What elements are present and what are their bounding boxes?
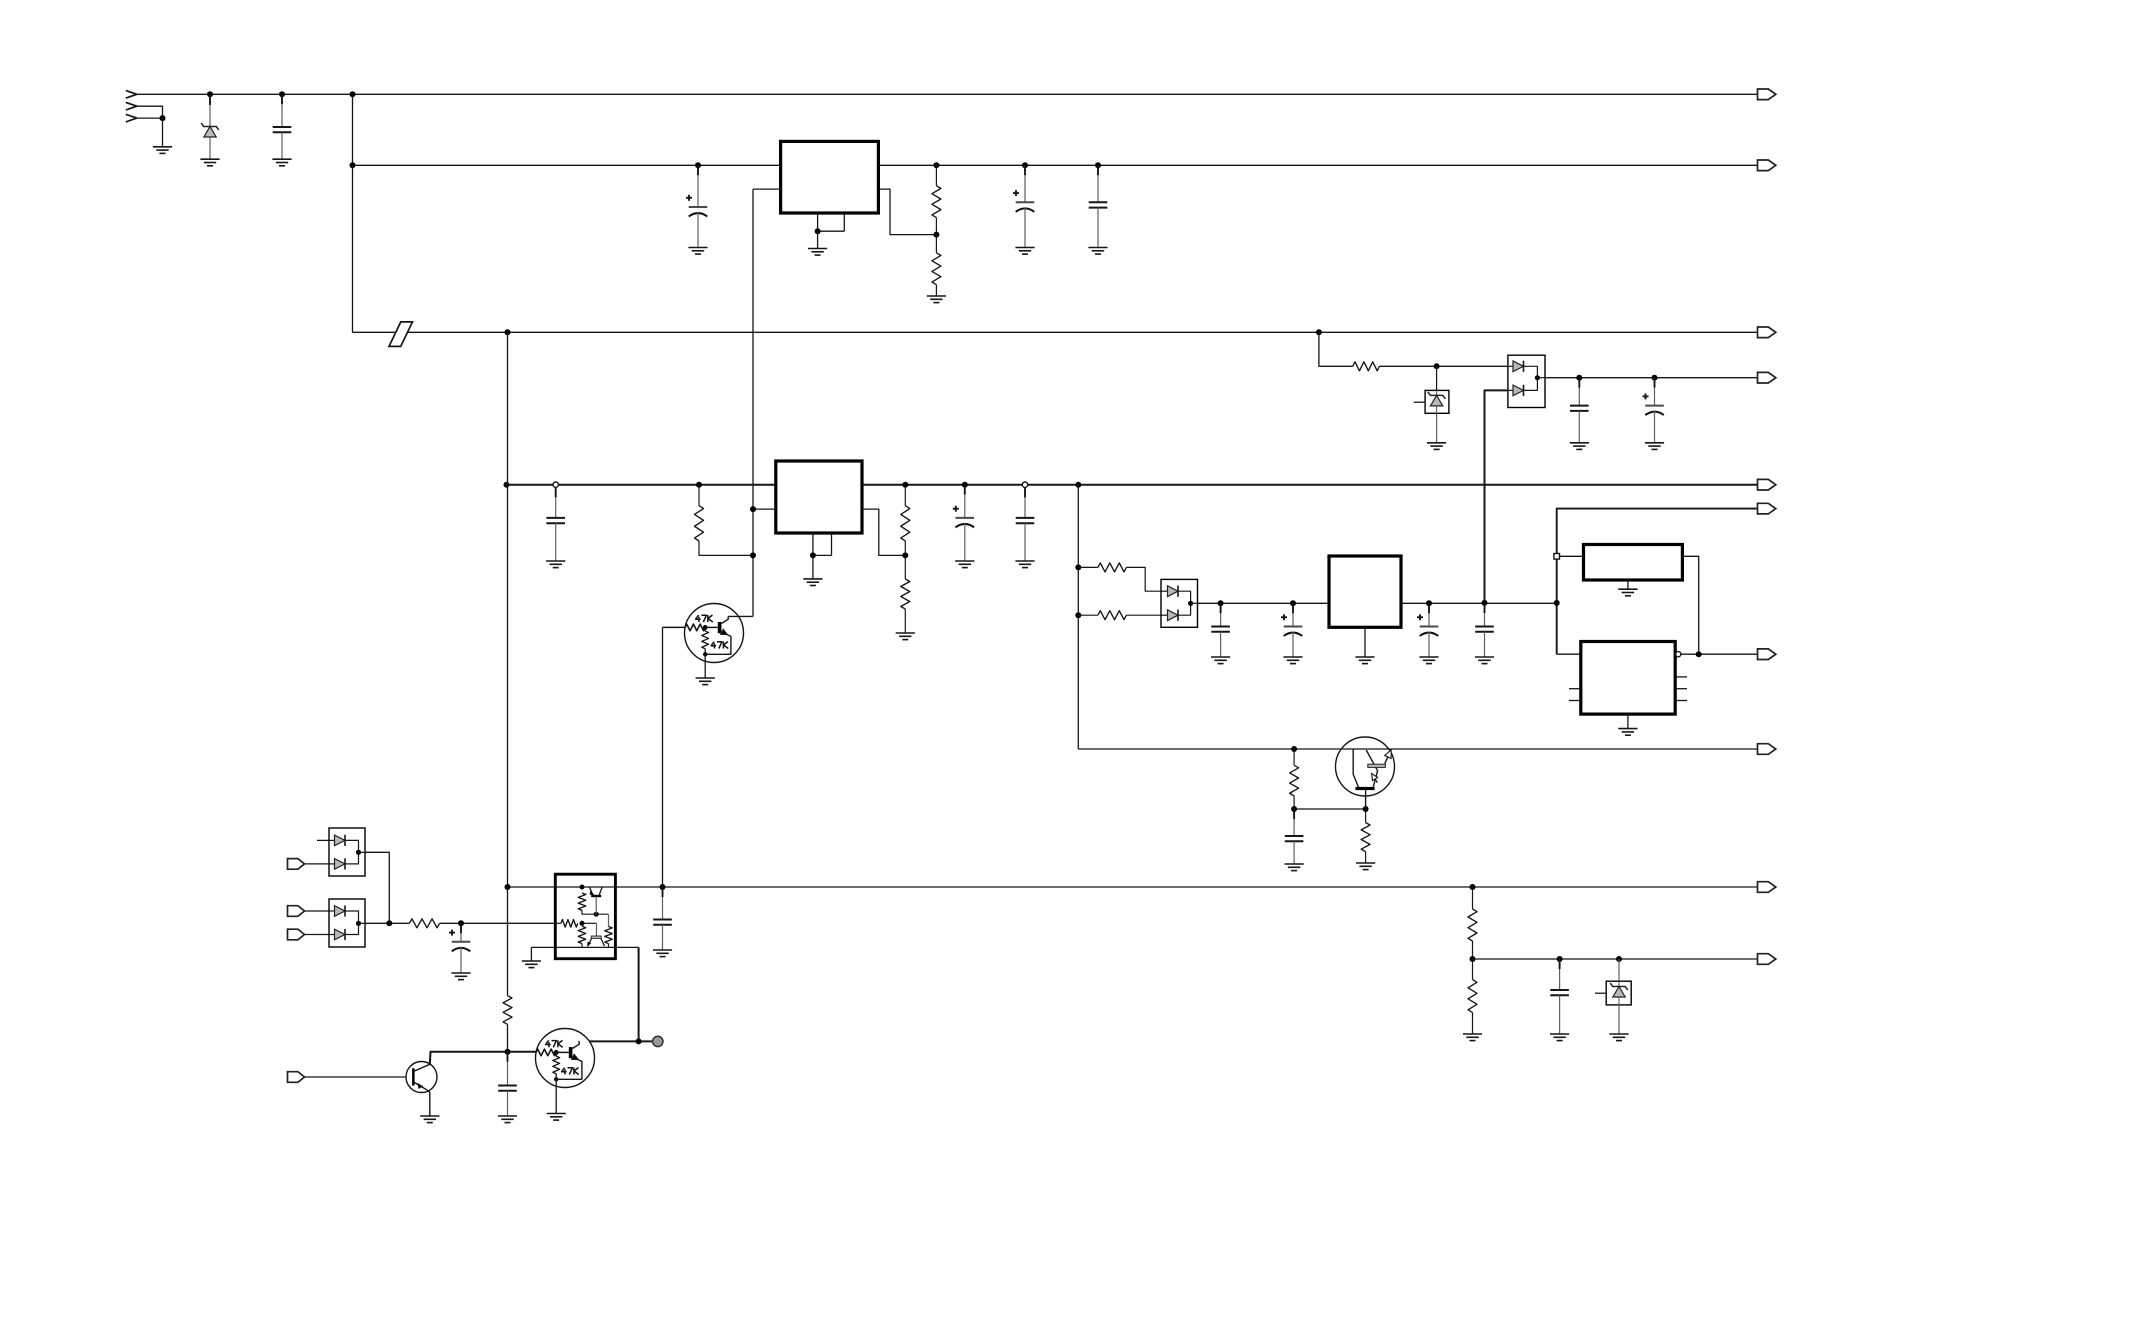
wire rail4 right <box>862 484 1758 486</box>
ground U3 <box>1355 657 1374 664</box>
capacitor C1 <box>272 94 291 166</box>
wire U2 sense pin <box>862 509 905 555</box>
diode Z3 boxed zener <box>1595 981 1631 1005</box>
junction U1 ground <box>815 228 821 234</box>
wire D3 out <box>365 852 389 923</box>
junction rail3 x507 <box>505 329 511 335</box>
resistor R2 <box>932 235 941 296</box>
capacitor C7 <box>546 487 565 567</box>
connector ring C9 node <box>1022 482 1027 487</box>
junction C5 <box>1576 375 1582 381</box>
junction C13 <box>1482 600 1488 606</box>
wire U3 gnd lead <box>1364 627 1366 657</box>
wire D2 to U3 <box>1198 602 1330 604</box>
wire Q2 collector <box>430 1052 536 1065</box>
capacitor C8 electrolytic <box>953 485 975 568</box>
junction rail2 R1 <box>933 162 939 168</box>
wire rail5 <box>1557 509 1758 655</box>
wire Z2 bottom lead <box>1436 413 1438 443</box>
output arrow y887 <box>1758 882 1776 893</box>
wire U1 sense pin <box>878 189 936 235</box>
wire Z3 bottom lead <box>1618 1005 1620 1034</box>
resistor R8 <box>1078 611 1161 620</box>
output arrow y749 <box>1758 744 1776 755</box>
junction C16 <box>458 920 464 926</box>
op-amp U2 regulator box <box>776 461 862 533</box>
junction rail2 C3 <box>1022 162 1028 168</box>
wire U2 ground pins <box>813 533 832 555</box>
output arrow U5 <box>1758 649 1776 660</box>
pin circle U5 output <box>1676 652 1681 657</box>
wire U1 ground pins <box>818 213 845 231</box>
wire Q2 base <box>305 1076 407 1078</box>
wire D3 pin2 <box>305 863 330 865</box>
wire vertical rail1-rail3 <box>352 94 354 332</box>
junction rail1 drop <box>350 91 356 97</box>
wire D3 pin1 stub <box>317 839 329 841</box>
junction rail4 C8 <box>962 482 968 488</box>
wire Z1 to ground <box>209 137 211 159</box>
capacitor C14 <box>1285 809 1304 871</box>
wire vertical x1078 <box>1077 485 1079 749</box>
wire vertical x507 <box>507 332 509 887</box>
output arrow rail5 <box>1758 503 1776 514</box>
wire Q1 emitter node <box>1294 808 1366 810</box>
resistor R12 <box>1468 959 1477 1034</box>
op-amp U4 block box <box>1584 545 1683 581</box>
junction C6 <box>1652 375 1658 381</box>
transistor Q4 digital 47K <box>685 604 754 679</box>
wire U5 right stubs <box>1675 677 1687 701</box>
junction rail1 C1 <box>279 91 285 97</box>
wire U5 left stubs <box>1569 689 1581 701</box>
junction rail4 x507 <box>504 482 510 488</box>
junction rail2 C4 <box>1095 162 1101 168</box>
capacitor C18 <box>498 1052 517 1123</box>
ground R2 <box>927 296 946 303</box>
input arrow D4 pin1 <box>288 906 305 917</box>
wire to ground <box>162 118 164 147</box>
wire Z3 top lead <box>1618 959 1620 981</box>
wire J1 pin3 to node <box>137 117 163 119</box>
capacitor C3 electrolytic <box>1013 165 1035 254</box>
wire rail y887 <box>508 886 1758 888</box>
wire U5 output <box>1681 653 1758 655</box>
resistor R13 <box>409 919 439 928</box>
junction C11 <box>1290 600 1296 606</box>
zener Z1 <box>201 123 219 137</box>
wire Q4 base feed <box>663 626 686 628</box>
junction U2 ground <box>810 552 816 558</box>
output arrow rail1 <box>1758 89 1776 100</box>
resistor R4 <box>695 485 754 556</box>
wire U2 gnd lead <box>812 555 814 579</box>
junction Q3 out <box>636 1038 642 1044</box>
wire rail y959 <box>1473 958 1758 960</box>
resistor R10 <box>1361 809 1370 863</box>
connector J1 pin 2 <box>126 102 137 110</box>
diode Z2 boxed zener <box>1414 390 1449 413</box>
wire U4 input <box>1560 555 1584 557</box>
junction rail4 x1078 <box>1075 482 1081 488</box>
capacitor C16 electrolytic <box>449 923 471 979</box>
output arrow rail4 <box>1758 479 1776 490</box>
wire U6 output drop <box>638 947 640 1041</box>
wire rail1 VIN <box>137 93 1758 95</box>
ground U5 <box>1618 729 1637 736</box>
ground Q2 <box>420 1116 439 1123</box>
junction y887 C17 <box>660 884 666 890</box>
ground R10 <box>1356 863 1375 870</box>
connector J1 pin 3 <box>126 114 137 122</box>
junction Z3 <box>1616 956 1622 962</box>
wire D1 output <box>1545 377 1758 379</box>
junction y887 x507 <box>505 884 511 890</box>
junction R9 <box>1291 746 1297 752</box>
junction Q1 R10 <box>1363 806 1369 812</box>
junction R1 R2 <box>933 232 939 238</box>
wire U4 gnd lead <box>1627 580 1629 589</box>
capacitor C15 <box>1550 959 1569 1041</box>
wire U5 input <box>1557 653 1581 655</box>
input arrow D3 pin2 <box>288 859 305 870</box>
junction Q2-C18 <box>505 1049 511 1055</box>
wire Q3 collector rail <box>578 1040 653 1042</box>
ground U6 <box>522 961 541 968</box>
junction y887 R11 <box>1470 884 1476 890</box>
input arrow Q2 base <box>288 1072 305 1083</box>
wire U1 pin2 left <box>753 188 781 190</box>
output arrow D1 rail <box>1758 372 1776 383</box>
wire U3 output <box>1401 602 1557 604</box>
junction U4-U5 outputs <box>1696 651 1702 657</box>
connector ring C7 node <box>553 482 558 487</box>
wire U4 output <box>1682 556 1698 654</box>
resistor R9 <box>1290 749 1299 809</box>
wire vertical to D1 lower anode <box>1485 390 1508 603</box>
resistor R7 <box>1078 563 1161 591</box>
ground Q3 <box>547 1114 566 1121</box>
wire rail4 left <box>507 484 776 486</box>
junction rail1 Z1 <box>207 91 213 97</box>
op-amp U5 block box <box>1581 642 1675 715</box>
diode D4 dual box <box>329 899 365 947</box>
capacitor C9 <box>1015 487 1034 567</box>
wire rail3 <box>353 331 1758 333</box>
junction D3-D4 <box>386 920 392 926</box>
capacitor C4 <box>1088 165 1107 254</box>
wire U5 gnd lead <box>1627 714 1629 729</box>
pin square U4 input <box>1554 554 1560 560</box>
wire vertical x663 <box>662 627 664 887</box>
transistor Q1 <box>1336 737 1395 809</box>
transistor Q2 <box>406 1062 437 1117</box>
diode D2 dual box <box>1161 579 1198 627</box>
ground R6 <box>896 633 915 640</box>
ground U4 <box>1618 589 1637 596</box>
resistor R5 <box>901 485 910 556</box>
input arrow D4 pin2 <box>288 929 305 940</box>
junction rail3 branch <box>1316 329 1322 335</box>
junction U2 pin2 <box>750 506 756 512</box>
ground Z1 <box>200 159 219 166</box>
op-amp U3 regulator box <box>1329 556 1401 627</box>
wire D4 pin2 <box>305 934 330 936</box>
wire J1 pin2 to node <box>137 106 163 118</box>
output arrow rail2 <box>1758 160 1776 171</box>
junction rail4 R4 <box>696 482 702 488</box>
wire rail y749 <box>1078 748 1757 750</box>
wire D4 pin1 <box>305 910 330 912</box>
transistor pack U6 <box>531 874 638 959</box>
junction J1 pins 2-3 <box>160 115 166 121</box>
ground Q4 <box>696 678 715 685</box>
op-amp U1 regulator box <box>781 141 879 213</box>
junction x1078 R7 <box>1075 564 1081 570</box>
wire U6 gnd lead <box>530 947 532 961</box>
capacitor C5 <box>1570 378 1589 450</box>
diode D1 dual box <box>1508 355 1545 407</box>
wire R3 to D1 <box>1379 365 1508 367</box>
ground U1 <box>808 249 827 256</box>
junction R9 C14 <box>1291 806 1297 812</box>
junction rail4 R5 <box>902 482 908 488</box>
junction C12 <box>1426 600 1432 606</box>
wire Z1 lead <box>209 94 211 126</box>
ground U2 <box>803 579 822 586</box>
junction rail2 drop <box>350 162 356 168</box>
wire U1 gnd lead <box>817 231 819 248</box>
capacitor C10 <box>1211 603 1230 663</box>
ground Z3 <box>1609 1034 1628 1041</box>
junction x1078 R8 <box>1075 612 1081 618</box>
fuse F1 symbol <box>389 322 413 347</box>
resistor R14 <box>503 887 512 1052</box>
wire vertical U1 pin2 feed <box>752 189 754 616</box>
capacitor C17 <box>653 887 672 957</box>
wire D4 out <box>365 922 409 924</box>
ground R12 <box>1463 1034 1482 1041</box>
junction R5 R6 <box>902 552 908 558</box>
junction Z2 node <box>1434 363 1440 369</box>
connector J1 pin 1 <box>126 91 137 99</box>
junction rail2 C2 <box>695 162 701 168</box>
output arrow rail3 <box>1758 327 1776 338</box>
capacitor C11 electrolytic <box>1281 603 1303 663</box>
capacitor C2 electrolytic <box>686 165 708 254</box>
capacitor C6 electrolytic <box>1643 378 1665 450</box>
resistor R3 <box>1353 362 1380 371</box>
ground connector shield <box>153 147 172 154</box>
junction x753 R4 <box>750 552 756 558</box>
wire rail2 right <box>878 164 1757 166</box>
wire R13 to U6 <box>440 922 556 924</box>
wire branch drop <box>1319 332 1353 366</box>
resistor R11 <box>1468 887 1477 959</box>
wire U2 pin2 left <box>753 508 776 510</box>
resistor R1 <box>932 165 941 234</box>
diode D3 dual box <box>329 828 365 876</box>
junction C15 <box>1557 956 1563 962</box>
junction R11 R12 <box>1470 956 1476 962</box>
output arrow y959 <box>1758 954 1776 965</box>
junction C10 <box>1218 600 1224 606</box>
ground Z2 <box>1427 443 1446 450</box>
wire rail2 left <box>353 164 781 166</box>
terminal TP1 <box>653 1036 663 1046</box>
capacitor C12 electrolytic <box>1417 603 1439 663</box>
junction x1557 y603 <box>1554 600 1560 606</box>
resistor R6 <box>901 555 910 633</box>
capacitor C13 <box>1475 603 1494 664</box>
wire Z2 top lead <box>1436 366 1438 390</box>
transistor Q3 digital 47K <box>536 1029 595 1114</box>
